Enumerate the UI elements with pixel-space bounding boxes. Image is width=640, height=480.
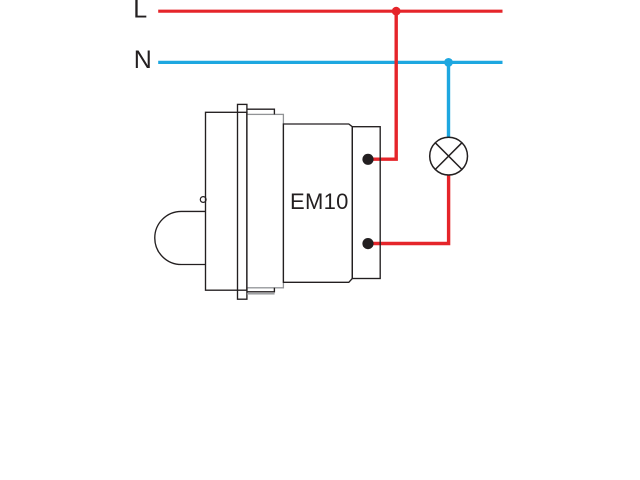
EM10 sensor dome [155, 211, 206, 264]
svg-text:EM10: EM10 [290, 189, 349, 214]
svg-text:L: L [133, 0, 147, 23]
wire from lamp to EM10 bottom terminal [368, 172, 449, 244]
EM10 front plate [206, 112, 247, 290]
wire L (live, red horizontal) [158, 10, 502, 13]
bottom terminal dot [362, 238, 373, 249]
wire from L to EM10 top terminal [368, 11, 396, 159]
EM10 main body [283, 124, 352, 282]
wire from N to lamp [447, 62, 450, 140]
junction on N [444, 58, 453, 67]
top terminal dot [362, 154, 373, 165]
bottom tab gray line [247, 293, 275, 295]
mounting strip [238, 104, 247, 299]
neck section (gray) [247, 114, 284, 287]
lamp symbol [430, 137, 468, 175]
top tab [247, 109, 275, 114]
svg-text:N: N [134, 46, 152, 74]
small circle detail on plate [200, 197, 206, 203]
junction on L [392, 7, 401, 16]
terminal flange [352, 127, 380, 279]
bottom tab [247, 288, 275, 292]
wire N (neutral, blue horizontal) [158, 61, 502, 64]
